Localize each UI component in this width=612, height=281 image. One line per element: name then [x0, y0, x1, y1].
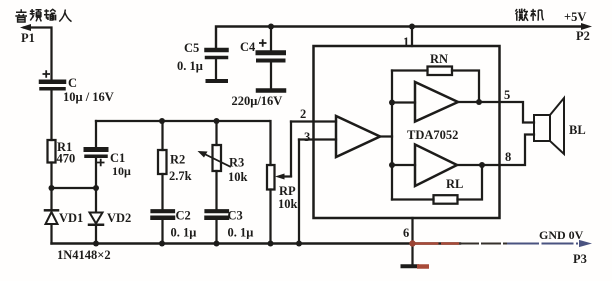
svg-text:5: 5: [504, 88, 510, 102]
svg-text:TDA7052: TDA7052: [407, 128, 458, 142]
svg-text:1: 1: [403, 35, 409, 49]
svg-text:0. 1μ: 0. 1μ: [228, 226, 254, 240]
svg-text:470: 470: [57, 152, 76, 166]
svg-text:RN: RN: [430, 52, 448, 66]
svg-text:C: C: [68, 76, 77, 90]
svg-text:10k: 10k: [228, 170, 248, 184]
svg-text:P2: P2: [576, 29, 590, 43]
svg-text:C2: C2: [176, 209, 191, 223]
svg-text:R2: R2: [170, 153, 185, 167]
svg-text:C1: C1: [110, 151, 125, 165]
svg-text:P3: P3: [573, 252, 587, 266]
svg-text:VD1: VD1: [59, 211, 83, 225]
svg-text:RL: RL: [446, 177, 463, 191]
svg-text:8: 8: [505, 150, 511, 164]
svg-text:VD2: VD2: [107, 211, 131, 225]
svg-text:0. 1μ: 0. 1μ: [177, 59, 203, 73]
svg-text:10μ: 10μ: [112, 164, 131, 178]
svg-text:2.7k: 2.7k: [169, 169, 192, 183]
svg-text:10k: 10k: [278, 197, 298, 211]
svg-text:C3: C3: [228, 209, 243, 223]
svg-text:P1: P1: [21, 31, 35, 45]
svg-text:C4: C4: [240, 40, 256, 54]
svg-text:1N4148×2: 1N4148×2: [57, 248, 111, 262]
svg-text:GND 0V: GND 0V: [539, 228, 584, 242]
svg-text:6: 6: [403, 226, 409, 240]
svg-text:BL: BL: [569, 123, 586, 137]
svg-text:220μ/16V: 220μ/16V: [232, 94, 283, 108]
svg-text:10μ / 16V: 10μ / 16V: [63, 90, 114, 104]
svg-text:RP: RP: [279, 184, 296, 198]
svg-text:2: 2: [300, 107, 306, 121]
svg-text:R3: R3: [229, 156, 244, 170]
svg-text:3: 3: [304, 130, 310, 144]
svg-text:0. 1μ: 0. 1μ: [171, 226, 197, 240]
svg-text:+5V: +5V: [564, 10, 586, 24]
svg-text:C5: C5: [184, 41, 199, 55]
